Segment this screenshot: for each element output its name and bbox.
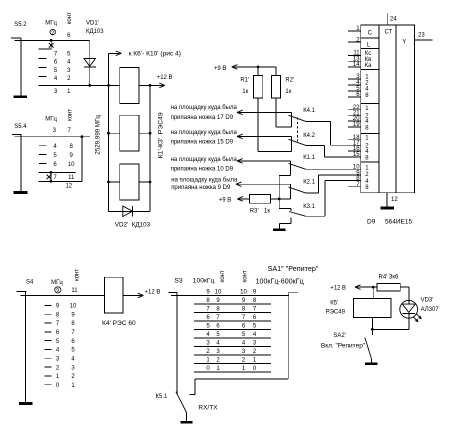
IC D9 pin 5 [348,90,361,92]
svg-text:+9 В: +9 В [214,66,227,72]
svg-text:СТ: СТ [384,30,392,36]
svg-text:SA2': SA2' [333,333,346,339]
power +12 В arrow (top) [150,84,163,86]
wire arrow to К6-К10 (рис 4) [108,53,110,85]
switch S4 contact row 9/10 [45,304,52,306]
svg-text:на площадку куда была: на площадку куда была [171,105,238,111]
contact К3.1 fixed path [278,199,280,209]
contact К1.1 fixed path to rail [290,161,292,175]
svg-text:12: 12 [65,184,72,190]
IC D9 pin 14 [348,66,361,68]
svg-text:К4.1: К4.1 [303,108,315,114]
svg-text:RX/TX: RX/TX [198,404,218,411]
svg-text:припаяна ножка 17 D9: припаяна ножка 17 D9 [171,115,234,121]
node S5.4 output junction [81,135,84,138]
svg-text:R3': R3' [250,208,259,214]
svg-text:К3.1: К3.1 [303,204,315,210]
switch S4 contact row 8/9 [45,313,52,315]
svg-text:К4.2: К4.2 [303,133,315,139]
wire К5 coil bottom to SA2 and LED [371,317,373,329]
op IC D9 564ИЕ15 body [361,25,415,193]
IC D9 pin 2 [348,41,361,43]
IC D9 pin 6 [348,96,361,98]
switch S3/SA1 contact row 8-9 / 9-8 [194,303,271,305]
relay coil К4' РЭС 60 [104,277,123,313]
svg-text:припаяна ножка 10 D9: припаяна ножка 10 D9 [171,167,234,173]
switch S3/SA1 contact row 9-10 / 10-9 [194,294,271,296]
ground (SA2) [370,358,372,362]
switch S5.4 row 12 line [39,180,82,182]
diode VD1 symbol [89,40,91,85]
svg-text:11: 11 [71,288,78,294]
wire R1 bottom to К4.2 fixed contact [257,98,259,151]
switch S4 contact row 7/8 [45,322,52,324]
svg-text:10: 10 [68,162,75,168]
wire left relay rail [108,85,110,211]
svg-text:К1'-К3' РЭС49: К1'-К3' РЭС49 [157,112,164,158]
switch S3/SA1 contact row 0-1 / 1-0 [194,371,271,373]
node R1 top junction [257,66,260,69]
switch S5.4 wiper jumper with X [50,171,53,174]
contact К5.1 blade [176,392,187,413]
svg-text:24: 24 [390,17,397,23]
svg-text:2529,999 МГц: 2529,999 МГц [95,115,102,155]
svg-text:Вкл. "Репитер": Вкл. "Репитер" [321,342,366,349]
switch S4 contact row 0/1 [45,384,52,386]
IC D9 pin 12 [386,193,388,207]
wire S5.2 contact row 3/1 to relay rail [39,84,120,86]
wire pad 15 to К4.2 fixed [239,135,292,137]
IC D9 pin 22 [348,109,361,111]
svg-text:11: 11 [68,175,75,181]
svg-text:МГц: МГц [51,280,63,286]
contact К4.1 fixed stub [291,112,293,115]
switch S3/SA1 contact row 7-8 / 8-7 [194,311,271,313]
svg-text:конт: конт [220,270,226,282]
svg-text:конт: конт [67,12,73,24]
IC D9 pin 4 [348,84,361,86]
svg-text:15: 15 [353,152,360,158]
resistor R1' [257,67,259,76]
node VD1 cathode junction [88,84,91,87]
wire R4 to LED VD3 [400,286,409,288]
resistor R3' [249,194,270,203]
callout pad ножка 15 arrow [237,134,243,136]
svg-text:100кГц-600кГц: 100кГц-600кГц [256,278,304,286]
svg-text:К2.1: К2.1 [303,179,315,185]
svg-text:R2': R2' [285,77,294,83]
switch S4 contact row 1/2 [45,375,52,377]
svg-text:S5.2: S5.2 [14,22,27,28]
svg-text:конт: конт [74,269,80,281]
svg-text:12: 12 [391,197,398,203]
svg-text:на площадку куда была: на площадку куда была [171,178,238,184]
switch S5.4 contact row 4/8 [39,145,47,147]
svg-text:МГц: МГц [45,20,57,26]
svg-text:конт: конт [68,109,74,121]
switch S3/SA1 contact row 1-2 / 2-1 [194,362,271,364]
IC D9 pin 19 [348,126,361,128]
svg-text:C: C [368,30,373,36]
IC D9 pin 16 [348,150,361,152]
svg-text:SA1″ "Репитер": SA1″ "Репитер" [268,264,319,273]
svg-text:564ИЕ15: 564ИЕ15 [385,218,412,225]
contact К2.1 blade [289,187,306,193]
switch S5.2 contact row 5/3 [39,67,47,69]
contact К4.2 blade [289,139,306,145]
IC D9 pin 20 [348,120,361,122]
switch S4 common bracket [17,291,27,293]
relay coil К3' [120,164,139,200]
wire SA1 common to table [271,294,289,296]
svg-text:припаяна ножка 15 D9: припаяна ножка 15 D9 [171,139,234,145]
switch S5.2 wiper jumper with X [50,40,52,49]
IC D9 pin 3 [348,78,361,80]
contact К3.1 lower fixed to ground [290,218,292,224]
wire pad 10 to К1.1 fixed [239,160,291,162]
contact К3.1 blade [289,212,306,217]
callout pad ножка 9 arrow [236,182,242,184]
switch S3/SA1 contact row 6-7 / 7-6 [194,320,271,322]
svg-text:VD3': VD3' [421,297,434,303]
node S5.2 wiper junction [50,39,53,42]
relay coil К1' [120,67,139,103]
svg-text:10: 10 [240,289,247,295]
svg-text:Ка: Ка [365,63,372,69]
svg-text:14: 14 [353,62,360,68]
wire К1.1 to D9 pin 10 [306,168,361,170]
relay coil К2' [120,115,139,151]
svg-text:100кГц: 100кГц [193,278,215,285]
svg-text:К1.1: К1.1 [303,155,315,161]
IC D9 pin 24 [386,13,388,25]
switch S5.4 contact row 7/11 [39,171,76,173]
svg-text:2: 2 [51,30,54,36]
svg-text:+12 В: +12 В [330,285,346,291]
wire S4 common to relay К4 coil [20,294,104,296]
switch S5.2 contact row 7/5 [39,48,52,50]
wire К4.1 to D9 pin 17 [306,120,331,122]
wire right relay rail [149,85,151,211]
mechanical link К4.1-К4.2 (dashed) [297,118,299,144]
LED VD3' symbol [400,300,418,318]
svg-text:17: 17 [353,140,360,146]
svg-text:10: 10 [215,289,222,295]
resistor R2' [275,67,277,76]
switch S5.2 position 2 (circled) [50,29,55,34]
switch S3/SA1 contact row 4-5 / 5-4 [194,337,271,339]
power +12 В arrow (К4) [123,294,142,296]
svg-text:+12 В: +12 В [145,289,161,295]
node R3 junction [278,198,281,201]
svg-text:+9 В: +9 В [219,197,232,203]
IC D9 pin 21 [348,114,361,116]
callout pad ножка 10 arrow [237,159,243,161]
wire S5.2 common to diode VD1 [15,39,90,41]
node left rail middle junction [107,132,110,135]
ground (К3.1) [278,224,280,229]
svg-text:23: 23 [418,33,425,39]
svg-text:к К6'- К10' (рис 4): к К6'- К10' (рис 4) [129,50,181,57]
svg-text:К5': К5' [330,301,338,307]
svg-text:1к: 1к [285,89,291,95]
switch S5.2 contact row 6/4 [39,58,47,60]
callout pad ножка 17 arrow [237,110,243,112]
wire pad 17 to К4.1 fixed [239,111,292,113]
wire К4.2 to D9 pin 15 [306,144,325,146]
wire S5.4 row 12 to output [81,137,83,182]
svg-text:S3: S3 [174,278,182,285]
node R4 junction [372,286,375,289]
node right rail middle junction [149,132,152,135]
wire SA1 bottom rail to К5.1 fixed [195,378,288,380]
switch S3/SA1 contact row 3-4 / 4-3 [194,345,271,347]
svg-text:R1': R1' [240,77,249,83]
svg-text:РЭС49: РЭС49 [326,309,346,315]
node right rail bottom junction [149,181,152,184]
svg-text:10: 10 [70,304,77,310]
svg-text:на площадку куда была: на площадку куда была [171,130,238,136]
switch SA2 blade [371,329,373,335]
switch S4 position 9 (circled) [55,287,61,293]
wire pad 9 to К2.1 fixed [238,183,291,185]
svg-text:VD1': VD1' [86,21,99,27]
LED VD3 emission arrows [413,317,417,321]
switch S5.4 common bracket [12,134,22,136]
switch S4 contact row 3/4 [45,357,52,359]
svg-text:К5.1: К5.1 [156,394,168,400]
svg-text:9: 9 [56,288,59,294]
svg-text:К4' РЭС 60: К4' РЭС 60 [102,320,136,327]
IC D9 pin 18 [348,139,361,141]
resistor R4' 3к6 [373,286,377,288]
switch S3 common bracket [168,292,177,294]
svg-text:припаяна ножка 9 D9: припаяна ножка 9 D9 [171,185,231,191]
svg-text:КД103: КД103 [86,29,104,35]
svg-text:МГц: МГц [45,116,57,122]
svg-text:1к: 1к [242,89,248,95]
contact К1.1 blade [289,163,306,169]
svg-text:R4' 3к6: R4' 3к6 [379,274,399,280]
switch S5.2 contact row 4/2 [39,75,47,77]
ground (К5.1) [186,413,188,421]
wire К2.1 to D9 pin 9 [306,192,319,194]
contact К4.1 blade [289,115,306,121]
node left rail bottom junction [107,181,110,184]
svg-text:на площадку куда была: на площадку куда была [171,157,238,163]
switch SA1 common bracket [289,291,298,293]
switch S5.4 contact row 5/9 [39,154,47,156]
svg-text:S5.4: S5.4 [14,124,27,130]
svg-text:+12 В: +12 В [157,75,173,81]
wire R2 bottom to К4.1 fixed contact [275,98,277,127]
svg-text:АЛ307: АЛ307 [421,307,440,313]
IC D9 pin 13 [348,60,361,62]
node left rail top junction [107,84,110,87]
svg-text:S4: S4 [26,279,34,285]
svg-text:Y: Y [402,40,406,46]
IC D9 pin 7 [348,186,361,188]
svg-text:19: 19 [353,122,360,128]
wire К3.1 to D9 pin 8 [306,215,325,217]
switch S4 contact row 2/3 [45,366,52,368]
switch S4 contact row 6/7 [45,331,52,333]
node right rail top junction [149,84,152,87]
diode VD2 symbol [109,210,151,212]
IC D9 pin 1 [348,30,361,32]
wire S5.4 common line [15,136,90,138]
switch S4 contact row 5/6 [45,340,52,342]
switch S4 contact row 4/5 [45,348,52,350]
switch S3/SA1 contact row 5-6 / 6-5 [194,328,271,330]
switch S5.2 common bracket [11,37,21,39]
wire S3 common to table [171,294,194,296]
svg-text:VD2' КД103: VD2' КД103 [115,222,151,229]
contact К2.1 fixed path to rail [290,184,292,199]
IC D9 pin 23 output Y [415,39,433,41]
relay coil К5' РЭС49 [372,287,374,299]
svg-text:конт: конт [243,270,249,282]
ground (IC pin 12) [381,207,395,210]
svg-text:1к: 1к [264,208,270,214]
IC D9 pin 11 [348,54,361,56]
svg-text:D9: D9 [367,218,376,225]
switch S3/SA1 contact row 2-3 / 3-2 [194,354,271,356]
switch S5.4 contact row 6/10 [39,162,47,164]
